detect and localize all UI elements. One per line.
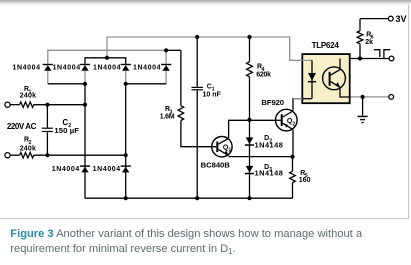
svg-text:Figure 3 Another variant of th: Figure 3 Another variant of this design … bbox=[10, 228, 363, 240]
svg-text:3: 3 bbox=[170, 109, 173, 115]
svg-text:3V: 3V bbox=[396, 14, 407, 24]
svg-text:1N4004: 1N4004 bbox=[52, 166, 80, 173]
svg-text:1N4004: 1N4004 bbox=[12, 64, 40, 71]
svg-text:requirement for minimal revers: requirement for minimal reverse current … bbox=[10, 243, 236, 256]
svg-text:1: 1 bbox=[212, 87, 215, 93]
svg-text:1: 1 bbox=[228, 148, 231, 154]
svg-text:4: 4 bbox=[262, 67, 265, 73]
svg-text:3: 3 bbox=[269, 167, 272, 173]
svg-text:BC840B: BC840B bbox=[201, 161, 231, 170]
svg-text:6: 6 bbox=[371, 35, 374, 41]
svg-text:1: 1 bbox=[29, 89, 32, 95]
svg-text:1N4004: 1N4004 bbox=[53, 64, 81, 71]
svg-text:220V AC: 220V AC bbox=[7, 122, 37, 131]
svg-text:240k: 240k bbox=[20, 146, 36, 153]
svg-text:BF920: BF920 bbox=[261, 98, 284, 107]
svg-text:2: 2 bbox=[68, 123, 71, 129]
svg-text:2: 2 bbox=[269, 138, 272, 144]
svg-text:TLP624: TLP624 bbox=[312, 41, 340, 50]
svg-text:150 µF: 150 µF bbox=[54, 126, 79, 135]
svg-text:2: 2 bbox=[292, 121, 295, 127]
svg-text:1N4004: 1N4004 bbox=[133, 64, 161, 71]
svg-text:1.6M: 1.6M bbox=[160, 114, 175, 121]
svg-text:1N4004: 1N4004 bbox=[93, 166, 121, 173]
svg-text:5: 5 bbox=[305, 173, 308, 179]
svg-text:10 nF: 10 nF bbox=[203, 92, 222, 99]
svg-text:1N4004: 1N4004 bbox=[93, 64, 121, 71]
svg-text:2: 2 bbox=[29, 140, 32, 146]
